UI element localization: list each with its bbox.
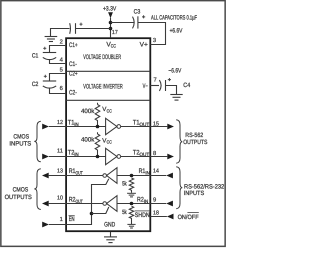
- svg-text:C1-: C1-: [69, 61, 77, 68]
- input arrow T2IN: [42, 154, 66, 160]
- svg-text:13: 13: [57, 167, 63, 174]
- pin number 14: [153, 168, 160, 174]
- wire T1IN internal: [66, 126, 106, 128]
- wire C4 to ground: [166, 86, 177, 95]
- wire C1+ pin 2: [50, 46, 67, 53]
- border frame: [1, 1, 225, 247]
- pin label T1IN: [68, 120, 79, 128]
- pin number 4: [60, 57, 64, 63]
- pin label R2IN: [137, 196, 149, 204]
- pin label R2OUT: [69, 196, 83, 204]
- svg-text:INPUTS: INPUTS: [9, 140, 31, 147]
- pin label T2OUT: [133, 150, 149, 158]
- resistor R-R2 5k: [129, 206, 133, 224]
- svg-text:C2+: C2+: [69, 71, 78, 78]
- svg-text:VOLTAGE INVERTER: VOLTAGE INVERTER: [83, 83, 123, 90]
- wire C1- pin 4: [50, 60, 67, 64]
- value label 5k (R2): [122, 209, 127, 216]
- svg-text:400k: 400k: [81, 136, 95, 143]
- pin label T2IN: [68, 150, 79, 158]
- output arrow R2OUT: [42, 201, 66, 207]
- svg-text:RS-562: RS-562: [185, 132, 203, 139]
- brace RS-562/RS-232 inputs: [176, 167, 182, 209]
- power label VCC (T1): [102, 106, 112, 113]
- pin label EN: [69, 216, 75, 223]
- label C4: [183, 82, 190, 89]
- ground symbol R2 5k: [127, 224, 135, 228]
- pin label C1-: [69, 61, 77, 68]
- label ON/OFF: [178, 214, 199, 221]
- pin label T1OUT: [133, 120, 149, 128]
- pin number 6: [60, 85, 63, 92]
- svg-text:5k: 5k: [122, 209, 127, 216]
- wire EN pin 1: [49, 224, 66, 226]
- pin number 9: [153, 196, 156, 203]
- input arrow R2IN: [150, 201, 173, 207]
- label RS-562 OUTPUTS: [183, 132, 207, 146]
- svg-text:VOLTAGE DOUBLER: VOLTAGE DOUBLER: [83, 54, 121, 61]
- wire R2OUT internal: [66, 203, 103, 205]
- input arrow T1IN: [42, 124, 66, 130]
- svg-text:C2: C2: [32, 81, 39, 88]
- value label 400k (T1): [81, 108, 95, 115]
- wire R1IN internal: [117, 175, 150, 177]
- svg-text:C1: C1: [32, 53, 39, 60]
- IC U1 LTC1348 body: [66, 38, 150, 231]
- svg-text:10: 10: [57, 195, 63, 202]
- pin number 8: [153, 150, 156, 157]
- wire C2+ pin 5: [50, 74, 67, 82]
- driver buffer T2: [106, 148, 121, 164]
- label VOLTAGE DOUBLER: [83, 54, 121, 61]
- svg-text:6: 6: [60, 85, 63, 92]
- wire V- pin 7 to C4: [150, 85, 159, 87]
- svg-text:CMOS: CMOS: [13, 133, 29, 140]
- power +3.3V label: [103, 5, 117, 12]
- wire VCC node to C3: [111, 22, 135, 24]
- svg-text:+3.3V: +3.3V: [103, 5, 117, 12]
- voltage doubler section divider: [66, 70, 150, 72]
- output arrow T1OUT: [150, 124, 174, 130]
- pin label EN overline: [69, 215, 75, 217]
- svg-text:CC: CC: [107, 109, 113, 114]
- label C2: [32, 81, 39, 88]
- capacitor C5 bypass: [70, 23, 83, 34]
- wire C5 to ground: [51, 29, 70, 37]
- pin label SHDN: [135, 212, 150, 219]
- svg-text:IN: IN: [145, 171, 150, 177]
- pin number 3: [153, 37, 156, 44]
- wire +3.3V to VCC pin 17: [110, 18, 112, 38]
- node junction dot R2IN: [130, 202, 134, 206]
- wire T2OUT internal: [121, 156, 151, 158]
- node junction dot VCC-C5: [109, 27, 113, 31]
- svg-text:400k: 400k: [81, 108, 95, 115]
- svg-text:11: 11: [57, 149, 63, 155]
- capacitor C4: [159, 78, 171, 91]
- svg-text:OUTPUTS: OUTPUTS: [183, 139, 207, 146]
- pin label V+: [140, 41, 148, 48]
- svg-text:+6.6V: +6.6V: [170, 27, 183, 34]
- pin number 17: [112, 30, 118, 36]
- svg-text:C3: C3: [134, 8, 141, 15]
- value label 5k (R1): [122, 180, 127, 187]
- svg-text:5: 5: [60, 68, 63, 74]
- svg-text:IN: IN: [74, 122, 79, 128]
- svg-text:9: 9: [153, 196, 156, 203]
- pin number 2: [60, 38, 63, 45]
- pin number 12: [57, 119, 63, 126]
- wire GND stub: [110, 232, 112, 237]
- pin label C2-: [69, 89, 77, 96]
- svg-text:ON/OFF: ON/OFF: [178, 214, 199, 221]
- ground symbol top-left: [45, 37, 58, 42]
- pin number 11: [57, 149, 63, 155]
- pin label SHDN overline: [135, 210, 150, 212]
- receiver buffer R2: [103, 196, 117, 212]
- svg-text:GND: GND: [104, 221, 115, 228]
- label -6.6V: [168, 68, 182, 75]
- note ALL CAPACITORS 0.1uF: [151, 15, 197, 22]
- capacitor C1: [43, 47, 56, 60]
- input arrow R1IN: [150, 173, 173, 179]
- wire EN bus: [66, 179, 109, 225]
- wire C2- pin 6: [50, 88, 67, 93]
- pin number 5: [60, 68, 63, 74]
- label C1: [32, 53, 39, 60]
- svg-text:OUT: OUT: [139, 152, 149, 158]
- svg-text:18: 18: [153, 209, 159, 216]
- pin label VCC: [106, 41, 116, 49]
- svg-text:2: 2: [60, 38, 63, 45]
- resistor R-T2 400k pullup: [95, 132, 100, 156]
- svg-text:C4: C4: [183, 82, 190, 89]
- pin label C2+: [69, 71, 78, 78]
- capacitor C3: [133, 15, 146, 28]
- node junction dot EN: [90, 212, 94, 216]
- label +6.6V: [170, 27, 183, 34]
- brace CMOS inputs: [34, 121, 41, 162]
- ground symbol C4: [170, 95, 182, 101]
- pin number 1: [60, 217, 63, 223]
- svg-text:14: 14: [153, 168, 160, 174]
- node junction dot T2IN: [96, 155, 100, 159]
- pin number 13: [57, 167, 63, 174]
- pin label GND: [104, 221, 115, 228]
- wire T1OUT internal: [121, 126, 151, 128]
- node junction dot R1IN: [130, 174, 134, 178]
- pin number 15: [153, 121, 159, 127]
- svg-text:SHDN: SHDN: [135, 212, 150, 219]
- node junction dot VCC-C3: [109, 21, 113, 25]
- svg-text:V+: V+: [140, 41, 148, 48]
- svg-text:IN: IN: [144, 199, 149, 205]
- label C3: [134, 8, 141, 15]
- svg-text:ALL CAPACITORS 0.1µF: ALL CAPACITORS 0.1µF: [151, 15, 197, 22]
- node junction dot T1IN: [96, 125, 100, 129]
- pin label R1OUT: [69, 168, 83, 176]
- svg-text:CMOS: CMOS: [13, 187, 29, 194]
- resistor R-R1 5k: [129, 178, 133, 193]
- pin number 18: [153, 209, 159, 216]
- svg-text:3: 3: [153, 37, 156, 44]
- svg-text:V−: V−: [143, 83, 148, 90]
- power label VCC (T2): [102, 137, 112, 144]
- svg-text:8: 8: [153, 150, 156, 157]
- power +3.3V arrow: [108, 12, 113, 18]
- value label 400k (T2): [81, 136, 95, 143]
- input arrow SHDN ON/OFF: [150, 214, 173, 220]
- label VOLTAGE INVERTER: [83, 83, 123, 90]
- svg-text:EN: EN: [69, 216, 75, 223]
- svg-text:5k: 5k: [122, 180, 127, 187]
- svg-text:CC: CC: [111, 44, 117, 50]
- resistor R-T1 400k pullup: [95, 103, 100, 127]
- ground symbol GND: [104, 237, 117, 243]
- label ON/OFF overline: [187, 212, 198, 214]
- capacitor C2: [43, 75, 56, 88]
- svg-text:OUTPUTS: OUTPUTS: [5, 194, 32, 201]
- svg-text:1: 1: [60, 217, 63, 223]
- wire R1OUT internal: [66, 175, 103, 177]
- brace RS-562 outputs: [176, 120, 182, 163]
- svg-text:CC: CC: [107, 140, 113, 145]
- wire EN to R2 enable: [92, 207, 109, 214]
- svg-text:OUT: OUT: [139, 122, 149, 128]
- receiver buffer R1: [103, 168, 117, 184]
- pin label V-: [143, 83, 148, 90]
- svg-text:IN: IN: [74, 152, 79, 158]
- label CMOS OUTPUTS: [5, 187, 32, 202]
- pin number 10: [57, 195, 63, 202]
- voltage inverter section divider: [66, 99, 150, 101]
- svg-text:12: 12: [57, 119, 63, 126]
- svg-text:INPUTS: INPUTS: [184, 190, 205, 197]
- svg-text:7: 7: [154, 77, 157, 83]
- pin number 7: [154, 77, 157, 83]
- label CMOS INPUTS: [9, 133, 31, 147]
- wire R2IN internal: [117, 203, 150, 205]
- svg-text:C2-: C2-: [69, 89, 77, 96]
- svg-text:−6.6V: −6.6V: [168, 68, 182, 75]
- output arrow T2OUT: [150, 154, 174, 160]
- driver buffer T1: [106, 118, 121, 134]
- wire C3 to V+ pin 3: [138, 23, 166, 45]
- wire VCC rail to C5: [76, 28, 111, 30]
- svg-text:17: 17: [112, 30, 118, 36]
- output arrow R1OUT: [42, 173, 66, 179]
- input arrow EN: [42, 222, 49, 228]
- brace CMOS outputs: [34, 169, 41, 210]
- pin label C1+: [69, 42, 78, 49]
- wire T2IN internal: [66, 156, 106, 158]
- label RS-562/RS-232 INPUTS: [184, 183, 225, 197]
- svg-text:C1+: C1+: [69, 42, 78, 49]
- ground symbol R1 5k: [127, 193, 136, 197]
- pin label R1IN: [139, 168, 151, 176]
